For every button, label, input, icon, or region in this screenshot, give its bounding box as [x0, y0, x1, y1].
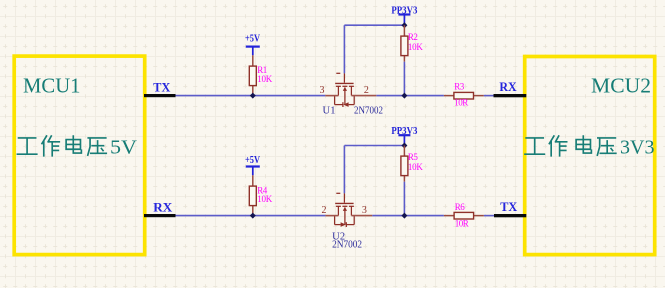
- wire U2 pin3 to TX side: [372, 215, 444, 217]
- svg-text:10K: 10K: [408, 42, 424, 52]
- wire R2 bottom to TX net: [403, 62, 405, 96]
- resistor R5 10K: [403, 146, 405, 182]
- svg-text:10K: 10K: [257, 194, 273, 204]
- resistor R2 10K: [403, 25, 405, 62]
- wire U1 gate net to PP3V3: [343, 25, 345, 73]
- U2 pin 2 lead: [325, 215, 338, 217]
- power +5V (top): [246, 47, 260, 56]
- svg-text:+5V: +5V: [245, 33, 260, 45]
- power +5V (bottom): [246, 167, 260, 176]
- svg-text:R3: R3: [454, 81, 465, 91]
- node junction R2/wire: [401, 93, 407, 99]
- transistor U1 2N7002: [335, 73, 355, 107]
- wire R5 bottom to RX net: [403, 182, 405, 216]
- node junction gate/PP3V3 bottom: [401, 143, 407, 149]
- svg-text:TX: TX: [153, 81, 170, 95]
- port RX (MCU2 side): [494, 94, 527, 97]
- svg-text:R5: R5: [408, 152, 419, 162]
- resistor R4 10K: [252, 175, 254, 215]
- U2 pin 3 lead: [351, 215, 372, 217]
- svg-text:2N7002: 2N7002: [332, 239, 362, 250]
- svg-text:2: 2: [364, 85, 369, 96]
- node junction R1/TX: [250, 93, 256, 99]
- svg-text:TX: TX: [500, 199, 518, 214]
- label 工作电压3V3 (hand-drawn CJK strokes): [525, 136, 616, 156]
- svg-text:3: 3: [362, 205, 367, 216]
- svg-text:RX: RX: [153, 201, 172, 215]
- label 工作电压5V (hand-drawn CJK strokes): [17, 136, 106, 156]
- port TX (MCU2 side, bottom): [494, 214, 526, 217]
- svg-text:R2: R2: [408, 32, 418, 42]
- svg-text:10R: 10R: [455, 218, 469, 228]
- svg-text:10K: 10K: [408, 162, 424, 172]
- svg-text:RX: RX: [499, 79, 517, 94]
- wire U2 gate net to PP3V3: [343, 146, 345, 194]
- resistor R6 10R: [444, 215, 484, 217]
- wire TX net (port to U1 pin3): [176, 95, 326, 97]
- svg-text:+5V: +5V: [245, 154, 260, 166]
- transistor U2 2N7002: [335, 193, 355, 227]
- svg-text:3V3: 3V3: [620, 137, 655, 158]
- U1 pin 2 lead: [351, 95, 376, 97]
- wire R6 to port TX: [484, 215, 494, 217]
- node junction gate/PP3V3: [401, 22, 407, 28]
- MCU1 box: [14, 56, 145, 255]
- node junction R5/wire: [401, 213, 407, 219]
- wire RX net (port to U2 pin2): [176, 215, 326, 217]
- svg-text:2N7002: 2N7002: [354, 105, 383, 116]
- resistor R3 10R: [444, 95, 484, 97]
- resistor R1 10K: [252, 55, 254, 95]
- MCU2 box: [525, 57, 655, 255]
- port TX (MCU1 side): [144, 94, 176, 97]
- svg-text:MCU2: MCU2: [591, 73, 651, 97]
- svg-text:10R: 10R: [454, 98, 468, 108]
- wire R3 to port RX: [484, 95, 494, 97]
- svg-text:2: 2: [322, 205, 327, 216]
- node junction R4/RX: [250, 213, 256, 219]
- wire U1 pin2 to RX side: [376, 95, 444, 97]
- svg-text:U1: U1: [323, 105, 336, 116]
- svg-text:MCU1: MCU1: [23, 73, 81, 97]
- U1 pin 3 lead: [325, 95, 338, 97]
- svg-text:R6: R6: [455, 202, 466, 212]
- svg-text:10K: 10K: [257, 74, 273, 84]
- svg-text:5V: 5V: [110, 137, 137, 158]
- port RX (MCU1 side, bottom): [144, 214, 176, 217]
- svg-text:3: 3: [320, 85, 325, 96]
